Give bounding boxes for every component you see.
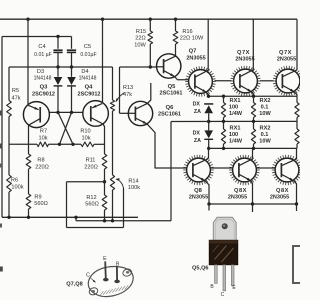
wire: R13/R14 column top corner: [112, 67, 114, 100]
svg-text:0.1: 0.1: [261, 132, 269, 138]
svg-text:D3: D3: [37, 69, 44, 75]
svg-text:R9: R9: [34, 194, 41, 200]
transistor Q8X 2N3055 second: [272, 155, 303, 185]
resistor RX2 upper 0.1 10W: [253, 96, 255, 102]
wire: left drop down: [66, 182, 68, 228]
svg-text:2N3055: 2N3055: [277, 57, 296, 63]
resistor R5 47k: [8, 67, 10, 101]
edge mark c: [0, 164, 2, 168]
wire: D4 bottom lead: [71, 86, 73, 112]
resistor R16 22Ω 10W: [175, 19, 177, 31]
wire: output drop x171: [170, 122, 172, 221]
wire: mid horizontal bus y67 left part: [9, 66, 113, 68]
edge mark e: [0, 267, 3, 272]
wire: Q7X2 collector to rail: [296, 19, 298, 70]
wire: drop to output box: [296, 204, 298, 211]
wire: ground rail: [2, 216, 138, 218]
svg-text:ZA: ZA: [194, 109, 201, 115]
wire: upper horizontal feeding C4/C5: [2, 36, 72, 38]
transistor Q3 2SC9012: [23, 102, 49, 128]
svg-text:0.01 µF: 0.01 µF: [34, 52, 52, 58]
capacitor C5: [67, 49, 76, 51]
top supply rail: [0, 18, 297, 20]
output box: [293, 246, 303, 283]
svg-text:Q7X: Q7X: [279, 50, 292, 56]
wire: C5 top lead: [71, 37, 73, 49]
wire: Q3/Q4 base interconnect: [49, 111, 83, 113]
svg-text:2SC9012: 2SC9012: [32, 91, 55, 97]
svg-text:1N4148: 1N4148: [34, 76, 52, 82]
svg-text:10k: 10k: [81, 135, 90, 141]
node: R15 bottom on Q5 base wire: [149, 65, 152, 68]
diode DX ZA lower: [204, 130, 213, 138]
svg-text:C: C: [86, 272, 90, 278]
transistor Q7X 2N3055 second: [273, 66, 304, 96]
svg-text:2N3055: 2N3055: [270, 195, 289, 201]
node: R11/R12 junction tap: [103, 180, 106, 183]
svg-text:22Ω 10W: 22Ω 10W: [180, 36, 204, 42]
node: X foot right: [71, 143, 74, 146]
svg-text:10W: 10W: [259, 111, 271, 117]
wire: base cross line y144 segment a: [9, 143, 37, 145]
svg-text:Q4: Q4: [85, 85, 94, 91]
wire: D3 bottom lead: [57, 86, 59, 112]
TO-220 leg E: [231, 265, 234, 286]
resistor RX1 upper 100 1/4W: [223, 96, 225, 102]
svg-text:0.1: 0.1: [261, 105, 269, 111]
wire: Q8 emitter stub: [208, 204, 210, 211]
node: R15 joins top rail: [149, 18, 152, 21]
resistor R11 220Ω: [102, 154, 107, 169]
wire: Q8 base row link b: [256, 167, 275, 169]
wire: bus B: [76, 220, 171, 222]
wire: R8 to R9: [28, 169, 30, 194]
svg-text:1N4148: 1N4148: [79, 76, 97, 82]
wire: C5 bottom lead: [71, 53, 73, 67]
svg-text:2SC9012: 2SC9012: [78, 91, 101, 97]
wire: mid rail y121: [171, 120, 297, 122]
svg-text:B: B: [116, 262, 120, 268]
wire: R14 bottom to bus B: [112, 190, 114, 221]
resistor R7 10k: [37, 142, 49, 147]
edge mark d: [0, 224, 2, 228]
svg-text:C5: C5: [84, 44, 91, 50]
svg-text:DX: DX: [193, 102, 201, 108]
wire: Q8X1 emitter stub: [252, 204, 254, 212]
wire: Q4 collector down to R11: [103, 124, 105, 154]
resistor R12 560Ω: [102, 195, 107, 210]
wire: Q3 collector down to R8: [28, 125, 30, 154]
resistor RX2 lower 0.1 10W: [253, 121, 255, 129]
svg-text:Q7,Q8: Q7,Q8: [66, 281, 82, 287]
wire: Q8X1 collector up: [252, 148, 254, 158]
svg-text:R15: R15: [136, 29, 146, 35]
svg-text:R6: R6: [11, 178, 18, 184]
wire: R12 bottom to bus B: [104, 210, 106, 221]
wire: lower bus C: [67, 227, 124, 229]
TO-220 leg C: [223, 265, 226, 291]
wire: Q3 emitter to rail: [27, 19, 29, 105]
svg-text:10k: 10k: [38, 135, 47, 141]
wire: R13 to R14 link: [112, 111, 114, 175]
resistor R8 220Ω: [26, 154, 31, 169]
wire: tap to left drop: [67, 181, 105, 183]
wire: y144 segment b: [49, 143, 82, 145]
wire: y144 segment c: [94, 143, 105, 145]
wire: Q5/Q6 common base drop: [119, 67, 121, 113]
transistor Q8X 2N3055 first: [229, 155, 260, 185]
wire: R5 to R6 link / y144 tee: [8, 117, 10, 176]
wire: D4 top lead: [71, 67, 73, 77]
svg-text:10W: 10W: [259, 139, 271, 145]
svg-text:R14: R14: [128, 178, 138, 184]
wire: Q8X2 emitter down: [294, 181, 297, 204]
wire: DX2 bottom: [208, 140, 210, 148]
svg-text:47k: 47k: [11, 96, 20, 102]
wire: R16 bottom to Q5 collector: [175, 44, 177, 57]
svg-text:R12: R12: [86, 195, 96, 201]
svg-text:RX2: RX2: [260, 98, 271, 104]
node: DX2 bottom: [207, 147, 210, 150]
svg-text:ZA: ZA: [194, 138, 201, 144]
wire: R14 wiper column: [123, 188, 125, 228]
svg-text:RX1: RX1: [230, 125, 241, 131]
node: D4/C5 on bus: [70, 65, 73, 68]
node: R16 joins top rail: [174, 18, 177, 21]
svg-text:Q8X: Q8X: [234, 188, 247, 194]
wire: Q7 collector to rail: [207, 19, 209, 70]
resistor RX2 lower right 0.1 10W: [296, 121, 298, 129]
wire: C4 bottom lead: [57, 53, 59, 67]
svg-text:C4: C4: [38, 44, 45, 50]
svg-text:1/4W: 1/4W: [229, 139, 243, 145]
svg-text:Q5,Q6: Q5,Q6: [192, 265, 208, 271]
transistor Q7X 2N3055 first: [230, 66, 261, 96]
svg-text:D4: D4: [81, 69, 88, 75]
svg-text:2SC1061: 2SC1061: [160, 91, 183, 97]
leader arrow to R13: [116, 93, 125, 102]
node: X foot left: [58, 143, 61, 146]
wire: Q8X1 emitter down: [251, 181, 253, 204]
wire: left vertical rail: [1, 37, 3, 218]
svg-text:Q8: Q8: [194, 188, 203, 194]
svg-text:DX: DX: [193, 130, 201, 136]
wire: Q6 collector up: [147, 83, 151, 104]
svg-text:100: 100: [229, 105, 238, 111]
TO-220 package photo Q5,Q6: [209, 217, 238, 264]
wire: bus B stub to ground rail: [75, 217, 77, 221]
svg-text:R11: R11: [86, 158, 96, 164]
svg-text:1/4W: 1/4W: [229, 111, 243, 117]
svg-text:Q8X: Q8X: [276, 188, 289, 194]
edge mark b: [0, 144, 2, 149]
transistor Q7 2N3055: [185, 66, 216, 96]
svg-text:R5: R5: [12, 88, 19, 94]
svg-text:Q7X: Q7X: [237, 50, 250, 56]
resistor RX1 lower 100 1/4W: [223, 121, 225, 129]
node: D3 to base line: [56, 111, 59, 114]
TO-3 pin B: [116, 267, 118, 281]
svg-text:100: 100: [229, 132, 238, 138]
TO-220 leg B: [215, 265, 218, 284]
svg-text:RX1: RX1: [230, 98, 241, 104]
resistor R10 10k: [81, 142, 94, 147]
node: D4 to base line: [70, 111, 73, 114]
wire: R6 bottom to ground rail: [8, 192, 10, 217]
TO-3 package photo Q7,Q8: [88, 267, 133, 297]
svg-text:10W: 10W: [134, 42, 146, 48]
diode D4 1N4148: [67, 77, 76, 85]
wire: Q4 emitter to rail: [102, 19, 104, 103]
wire: C4 top lead: [57, 37, 59, 49]
wire: emitter rail y96: [209, 95, 298, 97]
wire: Q7 base row link b: [260, 80, 274, 82]
resistor R6 100k: [7, 175, 12, 192]
wire: R9 to ground rail: [28, 209, 30, 217]
wire: Q7 emitter down: [206, 92, 208, 96]
wire: to Q6 base: [120, 112, 129, 114]
wire: lower rail y148: [209, 147, 297, 149]
wire: crossover diagonal 1: [58, 112, 73, 144]
wire: DX2 top: [208, 122, 210, 131]
resistor R15 22Ω 10W: [149, 19, 151, 31]
transistor Q5 2SC1061: [157, 54, 181, 78]
svg-text:Q7: Q7: [189, 49, 197, 55]
resistor R13 47k: [110, 100, 114, 111]
svg-text:C: C: [221, 292, 225, 298]
node: Q4 emitter column joins top rail: [101, 18, 104, 21]
wire: Q8 collector up: [208, 148, 210, 158]
svg-text:560Ω: 560Ω: [34, 201, 48, 207]
node: Q3 emitter column joins top rail: [26, 18, 29, 21]
wire: Q6 emitter to Q8 base: [147, 124, 187, 168]
svg-text:R13: R13: [123, 85, 133, 91]
svg-text:R16: R16: [182, 29, 192, 35]
svg-text:RX2: RX2: [260, 125, 271, 131]
wire: R11 to R12: [104, 169, 106, 195]
svg-text:560Ω: 560Ω: [85, 202, 99, 208]
wire: DX1 bottom: [208, 113, 210, 121]
wire: Q7X1 emitter down: [252, 92, 254, 96]
diode D3 1N4148: [54, 77, 63, 85]
wire: Q7 base row link a: [215, 80, 232, 82]
wire: R15 bottom to Q5 base wire: [149, 44, 151, 67]
wire: Q7X2 emitter down: [294, 92, 297, 96]
transistor Q4 2SC9012: [83, 101, 109, 127]
wire: Q8 emitter down: [205, 181, 209, 204]
leader arrow to R14 wiper: [116, 179, 123, 188]
svg-text:220Ω: 220Ω: [35, 164, 49, 170]
svg-text:2N3055: 2N3055: [189, 195, 208, 201]
TO-3 pin E: [104, 262, 107, 279]
wire: Q8X2 collector up: [296, 148, 298, 159]
svg-text:Q3: Q3: [40, 85, 49, 91]
wire: D3 top lead: [57, 67, 59, 77]
diode DX ZA upper: [204, 103, 213, 105]
svg-text:R10: R10: [80, 129, 90, 135]
svg-text:2N3055: 2N3055: [228, 195, 247, 201]
edge mark a: [0, 111, 2, 116]
svg-text:220Ω: 220Ω: [84, 164, 98, 170]
node: C4 top: [56, 35, 59, 38]
svg-text:Q6: Q6: [166, 105, 175, 111]
wire: Q7X1 collector to rail: [252, 19, 254, 69]
wire: mid horizontal bus y67 right part to Q5 base: [120, 66, 158, 68]
svg-text:2N3055: 2N3055: [186, 56, 205, 62]
svg-text:R7: R7: [40, 129, 47, 135]
transistor Q8 2N3055: [183, 155, 214, 185]
capacitor C4: [53, 49, 62, 51]
svg-text:2N3055: 2N3055: [235, 57, 254, 63]
transistor Q6 2SC1061: [128, 101, 152, 125]
svg-text:2SC1061: 2SC1061: [158, 112, 181, 118]
svg-text:R8: R8: [37, 158, 44, 164]
svg-text:Q5: Q5: [168, 84, 177, 90]
svg-text:0.01µF: 0.01µF: [80, 52, 96, 58]
wire: Q5 emitter to Q7 base: [174, 77, 189, 80]
wire: emitter bottom rail y204: [209, 203, 297, 205]
node: D3/C4 on bus: [56, 65, 59, 68]
resistor R9 560Ω: [26, 194, 31, 209]
node: DX midpoint: [207, 120, 210, 123]
svg-text:100k: 100k: [11, 184, 23, 190]
potentiometer R14 100k: [110, 175, 114, 190]
svg-text:100k: 100k: [128, 185, 140, 191]
wire: Q8 base row link a: [211, 167, 233, 169]
svg-text:22Ω: 22Ω: [135, 36, 145, 42]
resistor RX2 upper right 0.1 10W: [296, 96, 298, 102]
wire: crossover diagonal 2: [60, 112, 72, 144]
